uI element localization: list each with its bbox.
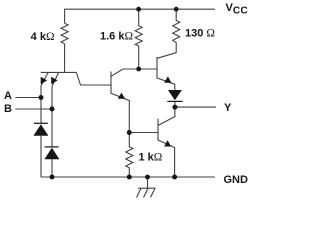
svg-text:VCC: VCC <box>226 2 249 17</box>
junction dot top rail R2 <box>136 7 141 12</box>
transistor Q2 phase splitter <box>111 69 129 133</box>
junction dot top rail R3 <box>174 7 179 12</box>
wire A node to diode D1 <box>40 98 42 124</box>
resistor R4 1k with leads <box>126 133 133 178</box>
wire D2 to GND rail <box>51 159 53 177</box>
svg-text:1 kΩ: 1 kΩ <box>139 152 163 164</box>
wire output Y <box>175 106 216 108</box>
wire input B <box>15 108 52 110</box>
emitter arrow Q3 <box>164 76 171 82</box>
svg-text:GND: GND <box>224 174 249 186</box>
transistor Q4 <box>158 119 175 177</box>
resistor R1 4k zigzag <box>61 23 68 44</box>
svg-text:4 kΩ: 4 kΩ <box>31 31 55 43</box>
junction dot GND rail B column <box>50 175 55 180</box>
svg-text:1.6 kΩ: 1.6 kΩ <box>100 31 133 43</box>
emitter arrow Q4 <box>164 140 171 146</box>
wire Q2 emitter node to Q4 base <box>129 132 158 134</box>
svg-text:130 Ω: 130 Ω <box>185 28 215 40</box>
svg-text:Y: Y <box>224 102 232 114</box>
junction dot node A <box>39 95 44 100</box>
diode D2 input B clamp <box>44 147 59 159</box>
wire GND rail <box>41 176 215 178</box>
ground symbol <box>137 177 156 198</box>
junction dot Q2 emitter node <box>127 130 132 135</box>
diode D1 input A clamp <box>33 123 48 136</box>
diode D3 output level shift <box>167 90 182 101</box>
junction dot GND rail Q4 emitter <box>172 175 177 180</box>
junction dot Q3 base node <box>136 67 141 72</box>
wire D1 to GND rail <box>40 136 42 177</box>
emitter arrow Q1 e1 <box>41 77 47 85</box>
wire B node to diode D2 <box>51 109 53 147</box>
junction dot GND rail ground symbol <box>145 175 150 180</box>
resistor R3 130 with leads <box>173 9 180 53</box>
wire Y node to Q4 collector <box>158 107 175 125</box>
junction dot node Y <box>172 105 177 110</box>
junction dot node B <box>50 107 55 112</box>
svg-text:B: B <box>4 103 12 115</box>
emitter arrow Q2 <box>118 93 125 99</box>
emitter arrow Q1 e2 <box>51 77 57 85</box>
wire R1 bottom to Q1 base <box>64 44 66 73</box>
resistor R2 1.6k with leads <box>135 9 142 69</box>
transistor Q3 <box>157 53 176 90</box>
transistor Q1 multi-emitter <box>41 72 111 109</box>
junction dot GND rail R4 <box>127 175 132 180</box>
wire Vcc top rail <box>65 9 215 23</box>
wire input A <box>15 97 41 99</box>
wire Q2 collector to Q3 base <box>123 68 157 70</box>
svg-text:A: A <box>4 90 12 102</box>
diode D3 cathode lead to Y node <box>174 101 176 107</box>
